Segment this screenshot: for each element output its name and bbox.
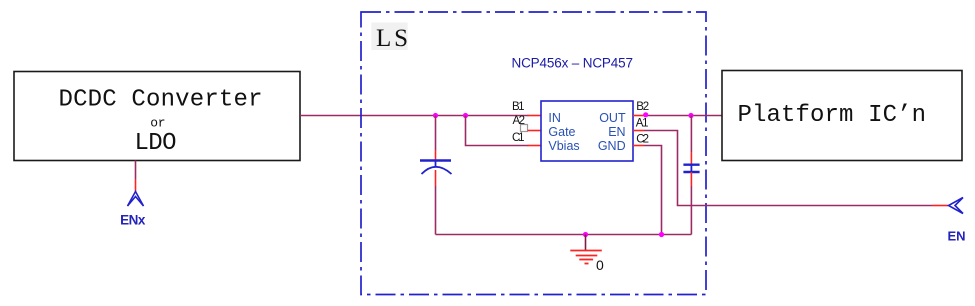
LS dashed boundary [361, 12, 706, 295]
svg-text:IN: IN [548, 111, 561, 125]
ground symbol 0 [570, 235, 602, 264]
capacitor C-out pin stub bottom [690, 172, 692, 186]
svg-text:Vbias: Vbias [548, 139, 579, 153]
wire: Vbias feed [466, 116, 529, 146]
wire: OUT to Platform block [644, 115, 722, 117]
op-amp U1 NCP456x body [541, 101, 633, 161]
pin stub OUT (pin B2) [633, 115, 644, 117]
pin stub GND (pin C2) [633, 145, 644, 147]
pin stub IN (pin B1) [528, 115, 542, 117]
pin stub: ENx off-page connector [135, 179, 137, 192]
svg-text:Platform IC’n: Platform IC’n [738, 102, 927, 129]
junction: output cap tap [688, 113, 693, 118]
wire: C-out bottom lead to ground rail [690, 186, 692, 235]
wire: C-out top lead [690, 116, 692, 153]
svg-text:C1: C1 [512, 132, 525, 144]
pin stub EN (pin A1) [633, 130, 644, 132]
wire: ground rail [436, 234, 692, 236]
wire: C-in bottom lead to ground rail [435, 186, 437, 235]
junction: GND drop on rail [659, 232, 664, 237]
capacitor C-out [683, 165, 699, 172]
junction: ground symbol tap [583, 232, 588, 237]
text LS [371, 23, 408, 53]
block: Platform IC'n [722, 71, 962, 161]
svg-text:GND: GND [598, 139, 626, 153]
svg-text:A1: A1 [636, 118, 649, 130]
capacitor C-in (polarized) [420, 161, 452, 175]
wire: ENx drop from DCDC box [135, 161, 137, 180]
svg-text:OUT: OUT [599, 111, 626, 125]
block: DCDC Converter or LDO [14, 72, 300, 161]
off-page connector EN [949, 198, 964, 214]
svg-text:NCP456x – NCP457: NCP456x – NCP457 [512, 56, 634, 71]
svg-text:C2: C2 [636, 134, 649, 146]
junction: input cap tap [433, 113, 438, 118]
svg-text:DCDC Converter: DCDC Converter [59, 87, 263, 114]
pin stub: EN off-page connector [932, 205, 948, 207]
capacitor C-in pin stub top [435, 150, 437, 160]
wire: GND pin to ground rail [644, 146, 662, 235]
junction: OUT pin [643, 112, 648, 117]
svg-text:EN: EN [608, 125, 625, 139]
svg-text:B1: B1 [512, 101, 525, 113]
svg-text:ENx: ENx [120, 213, 146, 228]
capacitor C-in (polarized) top lead wire [435, 116, 437, 151]
pin stub Gate (pin A2) [528, 130, 542, 132]
svg-text:EN: EN [948, 228, 966, 243]
wire: EN net from pin A1 [644, 131, 932, 206]
svg-text:LDO: LDO [135, 130, 177, 157]
junction: Vbias tap [463, 113, 468, 118]
svg-text:Gate: Gate [548, 125, 575, 139]
svg-text:B2: B2 [636, 101, 649, 113]
svg-text:0: 0 [596, 257, 604, 273]
wire: DCDC output to LS IN [300, 115, 529, 117]
capacitor C-in pin stub bottom [435, 170, 437, 186]
svg-text:or: or [150, 115, 165, 130]
capacitor C-out pin stub top [690, 152, 692, 164]
pin stub Vbias (pin C1) [528, 145, 542, 147]
no-connect marker on Gate pin [521, 125, 528, 132]
off-page connector ENx [128, 192, 144, 207]
svg-text:A2: A2 [513, 115, 526, 127]
